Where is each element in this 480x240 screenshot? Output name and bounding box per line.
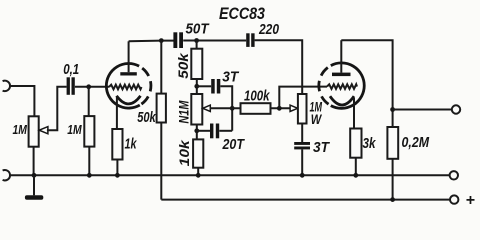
resistor R1 1M (grid leak) [88, 87, 90, 116]
resistor R8 0,2M [387, 127, 398, 159]
svg-text:W: W [311, 111, 323, 127]
potentiometer P3 1M W volume [298, 94, 307, 124]
wire anode V2 to output node [341, 40, 392, 127]
triode V2 envelope dashed arc [319, 66, 331, 106]
grid V1 zigzag [109, 85, 142, 90]
node anode2 [390, 107, 395, 112]
capacitor C4 3T [211, 79, 215, 94]
triode V1 envelope dashed arc [139, 66, 151, 105]
potentiometer P2 1M tone [191, 94, 202, 125]
wiper arrow P1 [39, 127, 48, 134]
triode V2 envelope solid arc [331, 63, 364, 108]
terminal ground [450, 171, 458, 179]
wire wiper bus to R6 [210, 107, 241, 109]
svg-text:1k: 1k [125, 135, 137, 152]
node rail R2 [115, 173, 120, 178]
capacitor C6 3T [294, 142, 310, 145]
wire C2 to C3 [183, 40, 246, 42]
node rail P1 [32, 173, 37, 178]
wiper arrow P3 [290, 105, 298, 111]
node grid1 [86, 84, 91, 89]
svg-text:0,1: 0,1 [63, 61, 79, 78]
potentiometer P1 1M [29, 116, 39, 146]
cathode V2 [330, 96, 354, 105]
capacitor C3 220 [246, 33, 249, 47]
svg-text:0,2M: 0,2M [402, 134, 430, 151]
wire node G2 riser to grid V2 [279, 87, 327, 109]
svg-text:3k: 3k [363, 135, 377, 152]
anode V2 [332, 73, 351, 77]
svg-text:+: + [466, 192, 475, 209]
wire C6 to ground rail [301, 149, 303, 175]
wire to C5 [197, 130, 210, 132]
wire P3 bottom to C6 [301, 124, 303, 143]
svg-text:1M: 1M [67, 122, 82, 137]
supply rail bottom [161, 199, 450, 201]
svg-text:20T: 20T [222, 136, 246, 153]
svg-text:3T: 3T [313, 139, 331, 156]
input jack upper [3, 81, 10, 91]
svg-text:N1M: N1M [175, 100, 191, 123]
anode V1 [120, 72, 137, 75]
node G2 [277, 106, 282, 111]
input jack lower [3, 170, 10, 180]
wire cathode V1 to R2 [116, 97, 118, 129]
node R4 bottom [194, 84, 199, 89]
wire P1 wiper to C1 [47, 87, 67, 130]
capacitor C1 0,1 [67, 77, 70, 95]
wire P1 bottom to ground rail [33, 147, 35, 176]
cathode V1 [117, 96, 141, 104]
node rail R7 [353, 173, 358, 178]
ground symbol [33, 175, 35, 195]
node rail R5 [196, 173, 201, 178]
wire C4 to wiper bus [220, 86, 232, 131]
triode V1 envelope solid arc [106, 63, 139, 108]
svg-text:50k: 50k [175, 52, 191, 79]
ground rail [10, 174, 450, 176]
svg-text:1M: 1M [13, 122, 28, 137]
wire C1 to grid V1 [75, 86, 109, 88]
node supply R8 [390, 197, 395, 202]
node anode1 [159, 38, 164, 43]
wire C5 to wiper bus [219, 130, 232, 132]
terminal output [452, 105, 460, 113]
svg-text:10k: 10k [176, 139, 192, 166]
wiper arrow P2 [203, 105, 211, 111]
wire cathode V2 to R7 [353, 98, 355, 129]
capacitor C2 50T [173, 32, 177, 48]
resistor R7 3k [350, 129, 361, 158]
resistor R4 50k tone [196, 41, 198, 49]
svg-text:100k: 100k [244, 87, 270, 104]
svg-text:3T: 3T [222, 69, 240, 86]
wire input to pot P1 top [10, 86, 34, 116]
wire anode V1 top line [129, 40, 174, 43]
node top of tone divider [194, 38, 199, 43]
wire R6 to node G2 [271, 107, 291, 109]
terminal plus [450, 195, 458, 203]
resistor R2 1k [112, 129, 122, 160]
capacitor C5 20T [210, 124, 213, 139]
node P2 bottom [194, 128, 199, 133]
svg-text:50T: 50T [186, 21, 211, 38]
wire to C4 [197, 85, 211, 87]
node rail R1 [87, 173, 92, 178]
resistor R3 50k anode load [160, 41, 162, 94]
resistor R6 100k [241, 103, 271, 114]
node rail C6 [300, 173, 305, 178]
svg-text:50k: 50k [137, 109, 156, 126]
wire output node to terminal [393, 109, 452, 111]
wire P2 bottom to R5 [196, 125, 198, 140]
resistor R5 10k [193, 139, 203, 167]
wire C3 to P3 top [255, 40, 303, 94]
svg-text:220: 220 [258, 21, 279, 38]
node wiper bus [230, 106, 235, 111]
grid V2 zigzag [327, 84, 357, 89]
